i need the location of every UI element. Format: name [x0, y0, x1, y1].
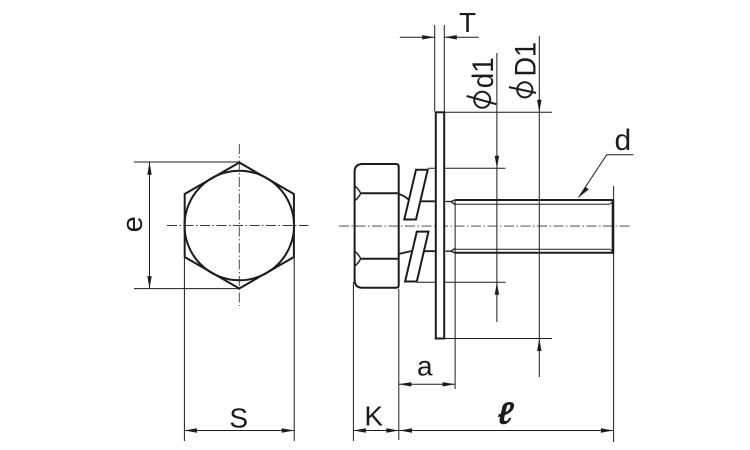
front-view horizontal centerline — [167, 225, 309, 227]
dimension a: right extension line — [454, 201, 456, 390]
spring washer: lower cross-section slash — [405, 232, 428, 282]
hex head side view: upper chamfer cusp — [355, 186, 361, 200]
svg-text:K: K — [364, 400, 383, 431]
svg-text:e: e — [117, 216, 149, 232]
svg-text:S: S — [229, 402, 248, 433]
label phi-d1: diameter symbol circle — [474, 92, 490, 108]
dimension T: right extension line — [443, 25, 445, 111]
spring washer: lower helix curve — [399, 251, 436, 254]
label phi-D1: diameter symbol circle — [517, 82, 532, 97]
svg-text:T: T — [459, 7, 476, 38]
dimension a: dimension line — [399, 383, 455, 385]
dimension K: dimension line — [353, 430, 398, 432]
svg-text:a: a — [417, 351, 433, 382]
dimension l: dimension line — [399, 430, 614, 432]
svg-text:D1: D1 — [509, 42, 543, 76]
svg-text:d1: d1 — [467, 57, 500, 88]
dimension T: left dimension line with arrow — [400, 36, 435, 38]
dimension K: right arrowhead — [386, 428, 399, 432]
dimension phi-D1: lower arrowhead — [537, 339, 541, 352]
dimension a: right arrowhead — [443, 382, 456, 386]
dimension phi-d1: lower extension line — [417, 281, 506, 283]
label phi-d1: diameter symbol slash — [467, 96, 497, 104]
dimension S: dimension line — [184, 430, 294, 432]
dimension phi-d1: dimension line — [496, 53, 498, 322]
hex head front view: hexagon outline — [185, 163, 294, 289]
label phi-D1: diameter symbol slash — [509, 87, 536, 93]
dimension phi-D1: upper arrowhead — [537, 100, 541, 113]
dimension phi-D1: lower extension line (washer bottom extended) — [435, 338, 552, 340]
threaded shank: lower end chamfer — [610, 249, 613, 252]
dimension phi-d1: upper arrowhead — [495, 156, 499, 169]
dimension phi-d1: lower arrowhead — [495, 282, 499, 295]
threaded shank: upper thread root line — [455, 203, 610, 205]
dimension l: left arrowhead — [400, 428, 413, 432]
dimension S: left extension line — [183, 258, 185, 441]
dimension a: left arrowhead — [399, 382, 412, 386]
hex head side view: upper facet line — [361, 192, 399, 194]
side-view horizontal centerline — [339, 225, 630, 227]
dimension e: bottom arrowhead — [147, 276, 151, 289]
spring washer: upper helix curve — [399, 194, 436, 201]
threaded shank: upper start chamfer — [446, 200, 456, 205]
dimension e: top arrowhead — [147, 162, 151, 175]
hex head front view: chamfer circle — [185, 171, 295, 281]
dimension K: left arrowhead — [353, 428, 366, 432]
front-view vertical centerline — [238, 144, 240, 306]
hex head side view: outline — [355, 164, 399, 288]
hex head side view: lower facet line — [361, 258, 399, 260]
threaded shank: upper end chamfer — [610, 201, 613, 205]
dimension l: right arrowhead — [601, 428, 614, 432]
dimension phi-D1: upper extension line (washer top extended) — [435, 111, 552, 113]
threaded shank: lower start chamfer — [446, 248, 456, 253]
dimension phi-d1: upper extension line — [428, 167, 506, 169]
dimension e: top extension line — [134, 161, 241, 163]
side view: K extension line (head left) — [352, 282, 354, 441]
dimension l: right extension line — [613, 186, 615, 442]
dimension T: left extension line — [434, 25, 436, 111]
dimension e: bottom extension line — [134, 288, 241, 290]
svg-text:d: d — [615, 124, 632, 157]
leader d: arrow + polyline — [579, 155, 634, 198]
threaded shank: outline — [455, 200, 613, 253]
threaded shank: lower thread root line — [455, 248, 610, 250]
dimension T: right dimension line with arrow — [444, 36, 478, 38]
spring washer: upper cross-section slash — [404, 170, 427, 220]
flat washer — [436, 112, 444, 338]
dimension S: left arrowhead — [184, 428, 197, 432]
dimension e: dimension line — [149, 162, 151, 288]
dimension phi-D1: dimension line — [538, 36, 540, 377]
hex head side view: lower chamfer cusp — [355, 252, 361, 266]
dimension S: right arrowhead — [282, 428, 295, 432]
dimension S: right extension line — [293, 258, 295, 441]
side view: under-head extension line — [398, 289, 400, 440]
